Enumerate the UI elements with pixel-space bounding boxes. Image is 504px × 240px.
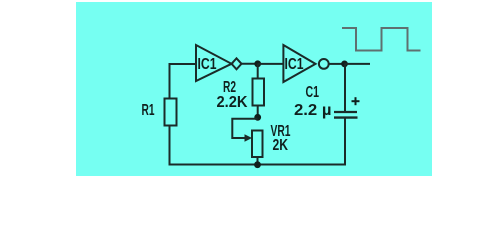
capacitor C1 top plate (334, 111, 357, 113)
wire: node A to IC1b input (258, 63, 284, 65)
inverter IC1 first stage triangle (196, 45, 232, 81)
wiper arrowhead of VR1 (245, 134, 253, 142)
output square waveform symbol (342, 28, 421, 51)
svg-text:R1: R1 (142, 102, 155, 119)
inversion bubble of first inverter (diamond) (232, 58, 242, 69)
svg-text:IC1: IC1 (285, 56, 304, 73)
resistor R2 (253, 79, 265, 106)
wire: C1 bottom plate to bottom rail (344, 119, 346, 166)
wire: top-left horizontal to IC1a input (169, 63, 197, 65)
wire: output stub going right (345, 63, 371, 65)
wire: R2 bottom to wiper node (257, 106, 259, 119)
svg-text:IC1: IC1 (198, 56, 217, 73)
wire: node B down to C1 top plate (344, 64, 346, 112)
resistor R1 (165, 99, 177, 126)
node B junction dot (341, 61, 348, 68)
wire: node A down to R2 top (257, 64, 259, 79)
wire: wiper connection of VR1 (232, 119, 257, 138)
wire: left vertical lower (R1 bottom to bottom rail) (169, 126, 171, 166)
schematic background panel (76, 2, 432, 176)
wire: first inverter output to node A (242, 63, 259, 65)
wire: bottom rail (169, 164, 347, 166)
wiper node junction dot (254, 114, 261, 121)
wire: second inverter output to node B (329, 63, 345, 65)
node A junction dot (254, 60, 261, 67)
capacitor C1 bottom plate (334, 116, 358, 118)
svg-text:2K: 2K (273, 137, 289, 154)
polarity plus sign of C1 (352, 97, 360, 105)
wire: VR1 bottom to bottom rail (257, 157, 259, 165)
svg-text:2.2 µ: 2.2 µ (294, 102, 332, 119)
potentiometer VR1 (252, 131, 263, 158)
inversion bubble of second inverter (circle) (319, 59, 329, 69)
svg-text:C1: C1 (306, 84, 320, 101)
bottom rail junction dot (254, 161, 261, 168)
wire: left vertical upper (IC1a input to R1 top) (169, 63, 171, 99)
svg-text:2.2K: 2.2K (217, 94, 248, 111)
inverter IC1 second stage triangle (283, 45, 315, 82)
